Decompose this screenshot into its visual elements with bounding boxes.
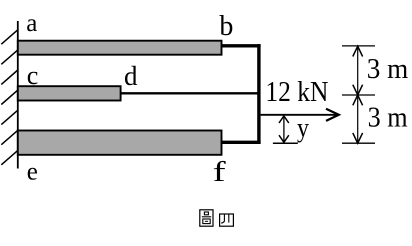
force arrow 12 kN head xyxy=(326,109,339,121)
rigid link f to vertical bar xyxy=(222,141,261,144)
right dimension vertical line xyxy=(357,46,359,143)
wall hatch 3 xyxy=(1,70,18,84)
rigid vertical bar xyxy=(257,44,260,144)
svg-text:b: b xyxy=(219,11,233,42)
y dimension arrowhead down xyxy=(279,135,289,142)
svg-text:f: f xyxy=(213,156,226,188)
arrowhead down to middle tick xyxy=(353,85,363,95)
arrowhead up from middle tick xyxy=(353,95,363,105)
wall hatch 7 xyxy=(1,150,18,164)
svg-text:c: c xyxy=(27,61,39,90)
right dimension middle tick xyxy=(342,94,375,96)
bar cd (middle) xyxy=(18,86,121,100)
bar ef (bottom) xyxy=(18,131,222,155)
y dimension bottom tick xyxy=(273,142,298,144)
wall vertical line xyxy=(17,21,19,169)
y dimension arrowhead up xyxy=(279,116,289,123)
svg-text:3 m: 3 m xyxy=(368,102,408,134)
svg-text:a: a xyxy=(26,10,37,37)
right dimension top tick xyxy=(342,45,375,47)
caption character 圖 xyxy=(200,210,213,226)
arrowhead down at bottom tick xyxy=(353,133,363,143)
svg-text:y: y xyxy=(297,112,309,142)
bar ab (top) xyxy=(18,41,222,55)
wall hatch 5 xyxy=(1,110,18,124)
svg-text:e: e xyxy=(27,159,38,186)
arrowhead up at top tick xyxy=(353,46,363,56)
wall hatch 4 xyxy=(1,90,18,104)
svg-text:3 m: 3 m xyxy=(367,53,409,85)
wall hatch 2 xyxy=(1,50,18,64)
svg-text:12 kN: 12 kN xyxy=(265,76,328,108)
rigid link b to vertical bar xyxy=(222,44,261,47)
right dimension bottom tick xyxy=(342,142,375,144)
y dimension line xyxy=(283,116,285,143)
wall hatch 1 xyxy=(1,30,18,44)
svg-text:d: d xyxy=(124,61,138,91)
caption character 四 xyxy=(220,214,234,226)
wire d to vertical bar xyxy=(121,92,259,94)
wall hatch 6 xyxy=(1,130,18,144)
force arrow 12 kN shaft xyxy=(261,114,339,116)
